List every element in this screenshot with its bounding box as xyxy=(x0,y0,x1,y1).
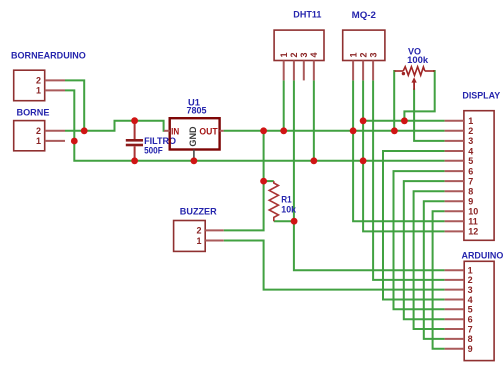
wire GND branch row A from MQ-2 pin2 line to DISPLAY pin1 xyxy=(363,120,445,122)
connector DISPLAY pin stubs 1-12 xyxy=(445,121,464,232)
svg-text:3: 3 xyxy=(468,136,473,146)
connector BUZZER box xyxy=(174,221,206,252)
svg-text:1: 1 xyxy=(36,86,41,96)
connector BORNE box xyxy=(14,121,45,151)
svg-text:1: 1 xyxy=(279,52,289,57)
connector BORNE pin 2 stub xyxy=(45,130,65,132)
svg-text:7: 7 xyxy=(468,324,473,334)
svg-text:7: 7 xyxy=(468,176,473,186)
wire +5V row from U1 OUT to DISPLAY pin2 xyxy=(224,130,445,132)
svg-text:8: 8 xyxy=(468,334,473,344)
svg-text:12: 12 xyxy=(468,227,478,237)
wire DHT11 pin2 down then right to ARDUINO pin1 xyxy=(294,80,445,270)
svg-text:1: 1 xyxy=(36,136,41,146)
svg-text:9: 9 xyxy=(468,197,473,207)
potentiometer VO wiper arrow xyxy=(413,81,415,90)
svg-text:100k: 100k xyxy=(407,55,429,65)
svg-text:3: 3 xyxy=(368,52,378,57)
wire from +5V row down to R1 top and on to BUZZER pin2 xyxy=(224,131,264,231)
svg-text:11: 11 xyxy=(468,217,478,227)
svg-text:2: 2 xyxy=(289,52,299,57)
svg-text:2: 2 xyxy=(358,52,368,57)
wire BUZZER pin1 to ARDUINO pin3 xyxy=(224,241,445,290)
connector DISPLAY pin numbers 1-12 xyxy=(468,116,478,237)
wire +5V row left from BORNE pin2 to U1 IN with jog over capacitor xyxy=(65,121,165,131)
connector BUZZER pin 1 stub xyxy=(205,240,224,242)
svg-text:6: 6 xyxy=(468,166,473,176)
junction dot BORNE pin1 GND xyxy=(71,138,78,145)
svg-text:R1: R1 xyxy=(281,194,291,204)
op-amp U1 IN pin stub xyxy=(164,130,170,132)
junction dot VO left on +5V row xyxy=(391,127,398,134)
connector ARDUINO box xyxy=(464,261,494,360)
potentiometer VO left lead xyxy=(394,70,403,72)
svg-text:BUZZER: BUZZER xyxy=(180,206,217,216)
capacitor FILTRO bottom plate xyxy=(126,144,143,147)
wire VO wiper down to DISPLAY pin3 xyxy=(414,89,445,141)
junction dot MQ-2 pin1 on +5V row xyxy=(350,127,357,134)
wire VO right terminal to row A GND xyxy=(404,71,434,121)
connector DHT11 pin 4 stub xyxy=(313,61,315,81)
potentiometer VO terminal dot xyxy=(402,72,405,75)
svg-text:3: 3 xyxy=(468,285,473,295)
capacitor FILTRO top plate xyxy=(126,139,143,142)
svg-text:1: 1 xyxy=(348,52,358,57)
svg-text:7805: 7805 xyxy=(187,106,207,116)
junction dot R1 branch on +5V row xyxy=(260,127,267,134)
wire DISPLAY pin8 to ARDUINO pin7 xyxy=(414,191,445,329)
connector ARDUINO pin stubs 1-9 xyxy=(445,270,465,349)
junction dot DHT11 pin4 on GND row xyxy=(310,157,317,164)
svg-text:6: 6 xyxy=(468,315,473,325)
junction dot VO right on row A xyxy=(401,117,408,124)
connector BORNEARDUINO box xyxy=(14,70,45,101)
potentiometer VO zigzag body xyxy=(403,67,425,76)
wire DHT11 pin4 down to GND row xyxy=(313,80,315,160)
connector MQ-2 pin 2 stub xyxy=(362,61,364,81)
svg-text:4: 4 xyxy=(309,52,319,57)
wire MQ-2 pin2 down through row A and GND row to DISPLAY pin12 xyxy=(363,80,445,231)
connector BORNEARDUINO pin 2 stub xyxy=(45,79,65,81)
potentiometer VO right lead xyxy=(425,70,435,72)
connector MQ-2 box xyxy=(343,30,385,60)
svg-text:DHT11: DHT11 xyxy=(293,10,321,20)
svg-text:2: 2 xyxy=(468,126,473,136)
svg-text:2: 2 xyxy=(196,226,201,236)
wire BORNEARDUINO pin2 down to +5V row xyxy=(65,80,84,130)
svg-text:IN: IN xyxy=(171,126,179,137)
svg-text:5: 5 xyxy=(468,156,473,166)
junction dot capacitor top xyxy=(131,117,138,124)
connector MQ-2 pin 3 stub xyxy=(372,61,374,81)
op-amp U1 7805 box xyxy=(170,118,220,149)
junction dot R1 top xyxy=(260,178,267,185)
svg-text:2: 2 xyxy=(36,126,41,136)
svg-text:4: 4 xyxy=(468,295,473,305)
svg-text:500F: 500F xyxy=(144,145,163,155)
svg-text:BORNE: BORNE xyxy=(17,107,50,117)
wire GND row from BORNE pin1 to DISPLAY pin5 xyxy=(74,141,444,161)
svg-text:10: 10 xyxy=(468,207,478,217)
svg-text:10k: 10k xyxy=(281,205,296,215)
wire MQ-2 pin3 down to ARDUINO pin2 xyxy=(373,80,445,280)
svg-text:1: 1 xyxy=(196,236,201,246)
junction dot BORNE +5V xyxy=(81,127,88,134)
svg-text:9: 9 xyxy=(468,344,473,354)
connector DHT11 box xyxy=(274,30,324,60)
svg-text:4: 4 xyxy=(468,146,473,156)
connector BORNEARDUINO pin 1 stub xyxy=(45,89,65,91)
svg-text:8: 8 xyxy=(468,187,473,197)
junction dot MQ-2 pin2 on row A xyxy=(360,117,367,124)
op-amp U1 OUT pin stub xyxy=(220,130,224,132)
wire VO left terminal to +5V row xyxy=(394,71,395,131)
svg-text:GND: GND xyxy=(188,126,199,146)
svg-text:1: 1 xyxy=(468,266,473,276)
capacitor FILTRO top lead xyxy=(134,121,136,140)
wire MQ-2 pin1 down through +5V row to DISPLAY pin11 xyxy=(353,80,445,221)
op-amp U1 GND pin stub xyxy=(193,150,195,161)
svg-text:MQ-2: MQ-2 xyxy=(352,10,376,20)
svg-text:DISPLAY: DISPLAY xyxy=(462,91,501,101)
connector BORNE pin 1 stub xyxy=(45,140,65,142)
wire DHT11 pin1 down to +5V row xyxy=(283,80,285,130)
wire DISPLAY pin4 to ARDUINO pin4 xyxy=(383,151,445,300)
svg-text:5: 5 xyxy=(468,305,473,315)
svg-text:BORNEARDUINO: BORNEARDUINO xyxy=(11,50,86,60)
wire DISPLAY pin9 to ARDUINO pin8 xyxy=(424,201,445,339)
connector DHT11 pin 3 stub unconnected xyxy=(303,61,305,81)
junction dot capacitor bottom xyxy=(131,157,138,164)
connector MQ-2 pin 1 stub xyxy=(352,61,354,81)
svg-text:OUT: OUT xyxy=(199,126,217,137)
svg-text:3: 3 xyxy=(299,52,309,57)
svg-text:1: 1 xyxy=(468,116,473,126)
wire DISPLAY pin10 to ARDUINO pin9 xyxy=(433,211,445,348)
connector BUZZER pin 2 stub xyxy=(205,229,224,231)
connector DISPLAY box xyxy=(464,111,494,241)
connector DHT11 pin 2 stub xyxy=(293,61,295,81)
junction dot U1 GND xyxy=(191,157,198,164)
junction dot DHT11 pin1 on +5V row xyxy=(280,127,287,134)
wire DISPLAY pin6 to ARDUINO pin5 xyxy=(394,171,445,309)
wire BORNEARDUINO pin1 down to BORNE pin1 xyxy=(65,90,74,141)
junction dot GND branch on GND row xyxy=(360,157,367,164)
svg-text:2: 2 xyxy=(36,76,41,86)
wire DISPLAY pin7 to ARDUINO pin6 xyxy=(404,181,445,319)
wire R1 top lead xyxy=(264,180,274,182)
svg-text:2: 2 xyxy=(468,275,473,285)
resistor R1 zigzag body xyxy=(269,181,278,221)
capacitor FILTRO bottom lead xyxy=(134,146,136,161)
junction dot R1 bottom DHT11 data xyxy=(291,218,298,225)
connector ARDUINO pin numbers 1-9 xyxy=(468,266,473,355)
svg-text:ARDUINO: ARDUINO xyxy=(462,250,504,260)
connector DHT11 pin 1 stub xyxy=(283,61,285,81)
wire R1 bottom lead to DHT11 pin2 line xyxy=(274,220,294,222)
